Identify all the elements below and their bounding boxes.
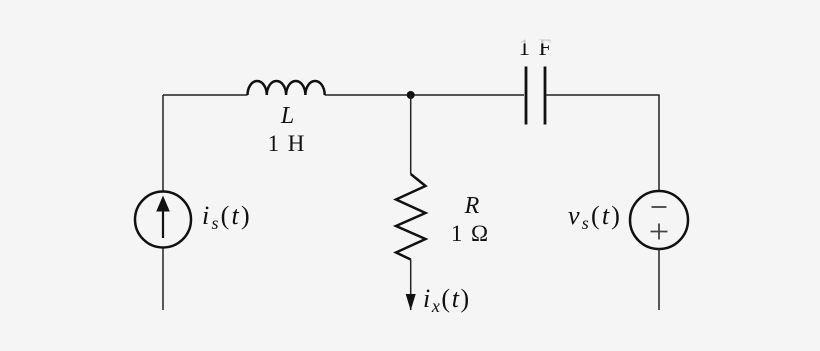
wire left vertical bottom [162,249,164,311]
wire below resistor with current arrow i_x [410,260,412,311]
inductor L1 (4 humps) [248,81,325,95]
node junction dot [407,91,415,99]
wire from inductor to capacitor (through node) [325,94,524,96]
wire from capacitor to top-right corner and down [547,95,660,191]
voltage source V1 circle [630,191,688,249]
wire right vertical bottom [658,249,660,310]
wire left vertical top [162,95,164,191]
svg-text:1 H: 1 H [268,131,307,156]
svg-text:1 Ω: 1 Ω [451,221,490,246]
plus sign [651,231,668,233]
arrowhead i_x [406,294,416,311]
wire middle vertical from node to resistor [410,95,412,174]
current source I1 circle [135,192,191,248]
svg-text:is(t): is(t) [202,201,252,233]
resistor R1 zigzag [396,174,426,260]
minus sign [652,206,667,208]
svg-text:L: L [280,103,294,129]
svg-text:vs(t): vs(t) [568,201,622,233]
capacitor C1 plates [525,67,528,125]
current source arrow [162,208,164,238]
svg-text:ix(t): ix(t) [423,284,471,316]
wire top-left horizontal from left corner to inductor [163,94,248,96]
svg-text:R: R [464,193,480,219]
